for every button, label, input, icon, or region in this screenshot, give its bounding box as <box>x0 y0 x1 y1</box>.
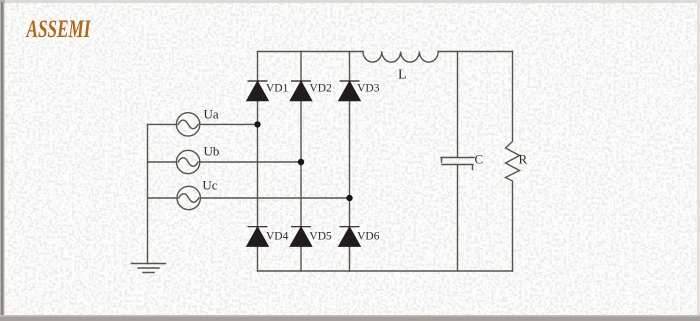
AC source Uc <box>177 186 200 209</box>
diode VD5 <box>290 227 311 247</box>
junction node phase c <box>346 195 352 201</box>
wire top rail right segment <box>438 51 512 53</box>
svg-text:ASSEMI: ASSEMI <box>25 16 91 43</box>
frame bottom edge <box>0 315 700 317</box>
diode VD4 <box>247 227 268 247</box>
junction node phase a <box>254 121 260 127</box>
AC source Ua <box>176 113 199 136</box>
diode VD1 <box>247 81 268 101</box>
inductor L <box>363 52 438 63</box>
svg-text:VD5: VD5 <box>309 231 332 243</box>
wire neutral vertical <box>147 124 149 263</box>
svg-text:Ua: Ua <box>204 107 219 122</box>
resistor R branch with zigzag <box>506 52 520 272</box>
wire phase c <box>148 197 350 199</box>
svg-text:C: C <box>475 152 484 167</box>
svg-text:R: R <box>519 151 528 166</box>
diode VD6 <box>339 227 360 247</box>
frame top edge <box>0 0 700 3</box>
wire bridge leg 1 <box>257 52 259 272</box>
svg-text:L: L <box>398 68 407 83</box>
wire top rail left segment <box>258 51 364 53</box>
wire bridge leg 2 <box>300 52 302 272</box>
wire phase b <box>148 161 302 163</box>
wire capacitor branch lower <box>457 165 459 271</box>
wire bridge leg 3 <box>349 52 351 272</box>
svg-text:VD1: VD1 <box>266 83 289 95</box>
diode VD3 <box>339 81 360 101</box>
svg-text:VD2: VD2 <box>309 83 332 95</box>
AC source Ub <box>176 150 199 173</box>
ground <box>132 264 166 273</box>
junction node phase b <box>298 159 304 165</box>
frame right edge <box>697 0 700 321</box>
svg-text:Ub: Ub <box>204 144 220 159</box>
wire capacitor branch upper <box>457 52 459 158</box>
frame left edge <box>0 2 5 321</box>
capacitor C plates <box>441 158 474 170</box>
svg-text:VD3: VD3 <box>357 83 380 95</box>
svg-text:VD6: VD6 <box>357 231 380 243</box>
svg-text:VD4: VD4 <box>266 231 289 243</box>
wire bottom rail <box>258 270 513 272</box>
diode VD2 <box>290 81 311 101</box>
wire phase a <box>148 123 258 125</box>
svg-text:Uc: Uc <box>202 178 217 193</box>
